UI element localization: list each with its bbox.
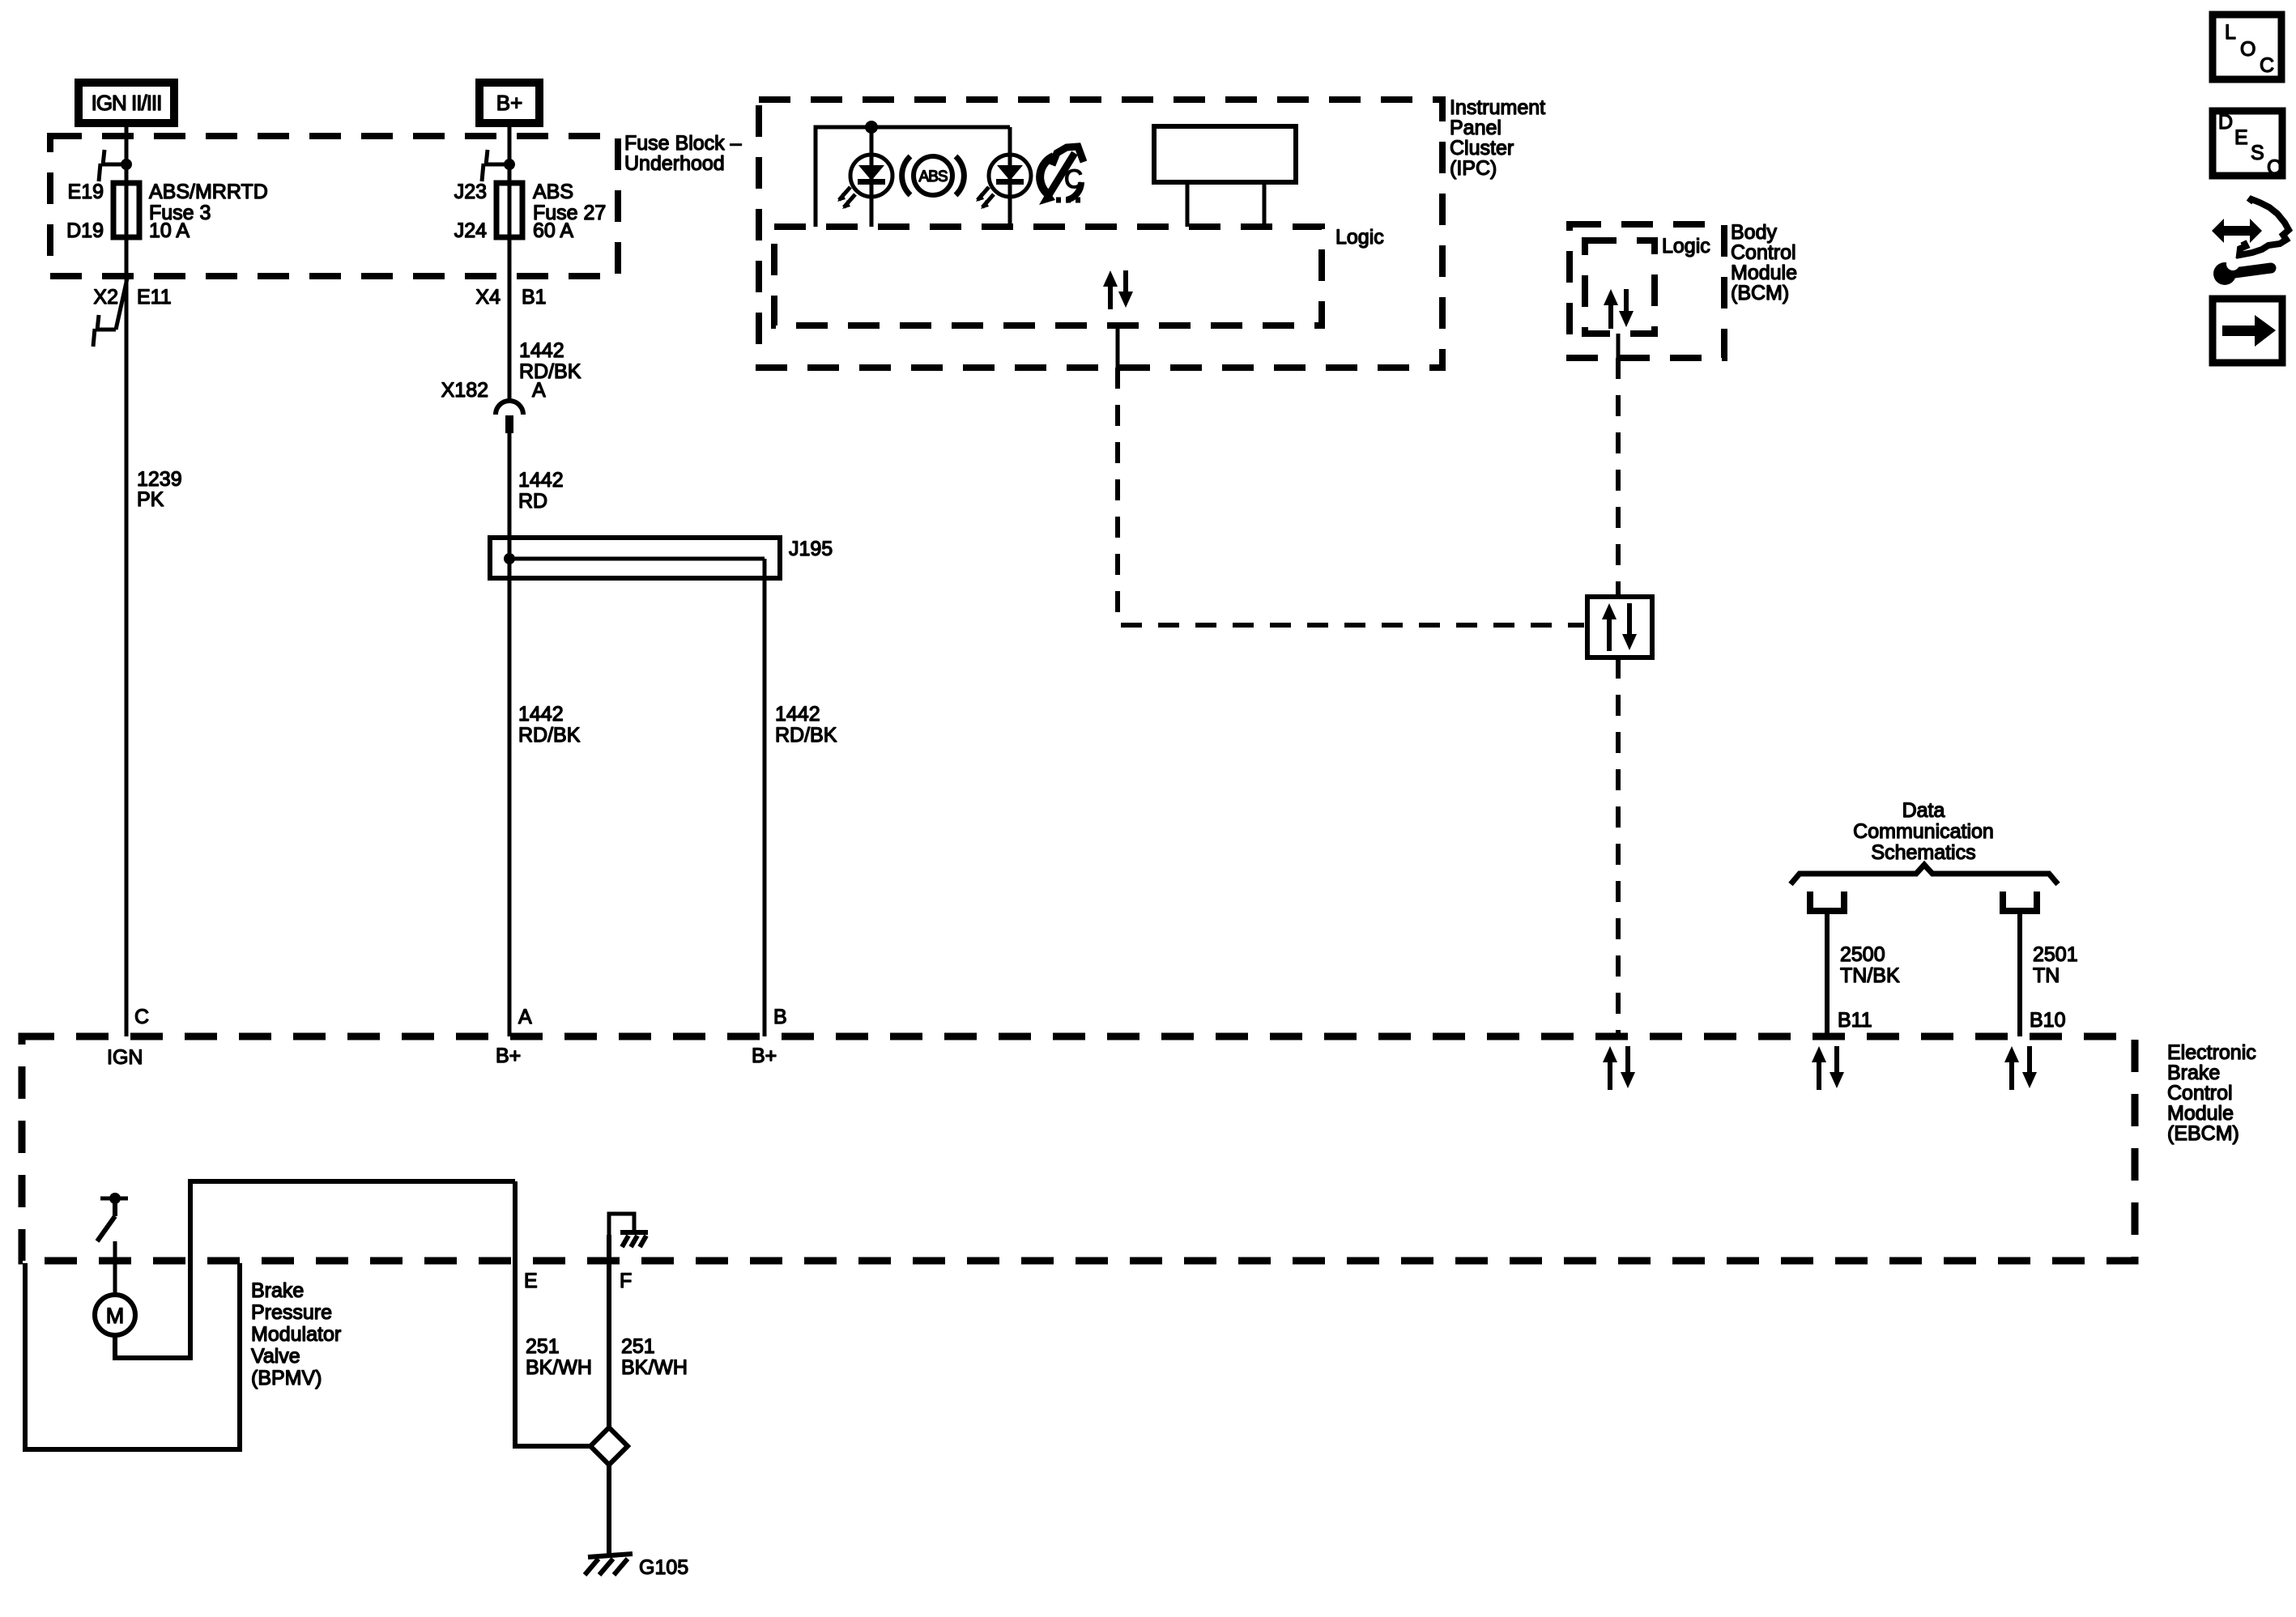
label Electronic Brake Control Module (EBCM) bbox=[2167, 1041, 2256, 1145]
IPC display module box bbox=[1154, 126, 1296, 182]
svg-text:10 A: 10 A bbox=[149, 219, 190, 242]
svg-text:D19: D19 bbox=[66, 219, 104, 242]
LED indicator ABS lamp bbox=[837, 155, 892, 209]
wire pin E to splice bbox=[515, 1181, 590, 1446]
svg-text:PK: PK bbox=[137, 488, 164, 511]
svg-text:J23: J23 bbox=[454, 181, 487, 203]
svg-text:B+: B+ bbox=[496, 1045, 521, 1067]
serial data arrows IPC logic bbox=[1103, 270, 1133, 309]
svg-text:Electronic: Electronic bbox=[2167, 1041, 2256, 1064]
wire J195 right leg to EBCM pin B bbox=[763, 559, 767, 1036]
label Brake Pressure Modulator Valve (BPMV) bbox=[251, 1279, 341, 1389]
svg-text:X182: X182 bbox=[441, 379, 488, 402]
svg-text:ABS/MRRTD: ABS/MRRTD bbox=[149, 181, 268, 203]
svg-text:Cluster: Cluster bbox=[1450, 137, 1514, 160]
svg-text:J195: J195 bbox=[789, 538, 833, 560]
ground G105 bbox=[585, 1554, 633, 1575]
svg-text:B+: B+ bbox=[752, 1045, 777, 1067]
label 251 BK/WH (E) bbox=[526, 1335, 592, 1379]
svg-text:A: A bbox=[518, 1006, 532, 1028]
power feed box B+ bbox=[479, 83, 539, 123]
svg-text:1442: 1442 bbox=[519, 339, 564, 362]
serial data wire junction to EBCM (dashed) bbox=[1616, 657, 1621, 1036]
svg-text:Schematics: Schematics bbox=[1871, 841, 1975, 864]
node dot J23 feed bbox=[504, 159, 515, 170]
LED indicator TC lamp bbox=[976, 155, 1031, 209]
label 2500 TN/BK bbox=[1840, 943, 1900, 987]
svg-text:2500: 2500 bbox=[1840, 943, 1885, 966]
svg-text:(EBCM): (EBCM) bbox=[2167, 1122, 2239, 1145]
svg-text:L: L bbox=[2225, 21, 2236, 44]
svg-text:Body: Body bbox=[1731, 221, 1777, 244]
svg-text:B: B bbox=[773, 1006, 787, 1028]
ABS warning symbol bbox=[902, 156, 965, 195]
svg-text:TN: TN bbox=[2033, 964, 2060, 987]
power feed box IGN II/III bbox=[79, 83, 174, 123]
label Data Communication Schematics bbox=[1853, 799, 1994, 864]
wire LED1 drop bbox=[870, 127, 874, 227]
svg-text:1442: 1442 bbox=[518, 703, 564, 726]
connector X182 male pin bbox=[505, 415, 513, 433]
svg-text:(IPC): (IPC) bbox=[1450, 157, 1497, 180]
wire fuse27 down to X182 bbox=[508, 237, 512, 400]
svg-text:M: M bbox=[106, 1304, 125, 1328]
label ABS Fuse 27 60 A bbox=[533, 181, 606, 242]
EBCM internal ground hook at F bbox=[609, 1214, 648, 1247]
svg-text:IGN: IGN bbox=[107, 1046, 143, 1069]
connector hook at J23 feed bbox=[482, 150, 509, 181]
label 1442 RD/BK right mid bbox=[775, 703, 837, 747]
wire switch to motor bbox=[113, 1241, 117, 1295]
fuse ABS Fuse 27 60A bbox=[496, 183, 522, 237]
svg-text:(BCM): (BCM) bbox=[1731, 282, 1789, 304]
svg-text:Panel: Panel bbox=[1450, 117, 1502, 139]
IPC outer dashed box bbox=[759, 100, 1442, 368]
svg-text:1442: 1442 bbox=[775, 703, 820, 726]
svg-text:Module: Module bbox=[2167, 1102, 2234, 1125]
label Body Control Module (BCM) bbox=[1731, 221, 1797, 304]
svg-text:RD: RD bbox=[518, 490, 547, 513]
svg-text:Modulator: Modulator bbox=[251, 1323, 341, 1346]
svg-text:E: E bbox=[2234, 126, 2248, 149]
svg-text:F: F bbox=[620, 1270, 632, 1292]
svg-text:ABS: ABS bbox=[533, 181, 573, 203]
svg-text:2501: 2501 bbox=[2033, 943, 2078, 966]
svg-text:E: E bbox=[524, 1270, 538, 1292]
svg-text:B+: B+ bbox=[496, 91, 523, 115]
node dot LED1 feed bbox=[865, 121, 878, 134]
svg-text:IGN II/III: IGN II/III bbox=[92, 91, 162, 115]
nav icon forward arrow bbox=[2213, 299, 2282, 363]
svg-text:O: O bbox=[2240, 38, 2256, 61]
svg-text:D: D bbox=[2218, 111, 2233, 134]
svg-text:C: C bbox=[134, 1006, 149, 1028]
pump switch contact bbox=[97, 1193, 128, 1241]
BCM outer dashed box bbox=[1570, 224, 1724, 358]
wire J195 left leg to EBCM pin A bbox=[508, 559, 512, 1036]
svg-text:1442: 1442 bbox=[518, 469, 564, 491]
svg-text:Instrument: Instrument bbox=[1450, 96, 1545, 119]
svg-text:Control: Control bbox=[1731, 241, 1796, 264]
wire IPC logic stub bbox=[1116, 326, 1120, 368]
wire BCM logic stub bbox=[1617, 334, 1621, 358]
svg-text:Brake: Brake bbox=[251, 1279, 304, 1302]
svg-text:Fuse Block –: Fuse Block – bbox=[624, 132, 742, 155]
serial data wire IPC (dashed) bbox=[1118, 368, 1584, 625]
fuse ABS/MRRTD Fuse 3 10A bbox=[113, 183, 139, 237]
svg-text:Logic: Logic bbox=[1335, 226, 1384, 249]
svg-text:G105: G105 bbox=[639, 1556, 688, 1579]
BCM logic dashed box bbox=[1585, 240, 1655, 334]
EBCM dashed box bbox=[22, 1036, 2135, 1261]
wire LED2 drop bbox=[1008, 127, 1012, 227]
svg-text:J24: J24 bbox=[454, 219, 487, 242]
wire fuse3 down to EBCM pin C bbox=[125, 237, 129, 1036]
display module leg 2 bbox=[1263, 182, 1267, 227]
svg-text:TN/BK: TN/BK bbox=[1840, 964, 1900, 987]
svg-text:Communication: Communication bbox=[1853, 820, 1994, 843]
off-page connector B11 wire bbox=[1807, 891, 1847, 1036]
label 251 BK/WH (F) bbox=[621, 1335, 688, 1379]
svg-text:Data: Data bbox=[1902, 799, 1945, 822]
inline connector slant at X2/E11 bbox=[93, 279, 127, 347]
pump motor M bbox=[95, 1295, 135, 1335]
brace data communication bbox=[1791, 865, 2058, 884]
serial data arrows EBCM serial bbox=[1603, 1046, 1635, 1090]
wire B+ to fuse 27 bbox=[508, 127, 512, 186]
fuse block underhood dashed box bbox=[50, 136, 618, 276]
serial data arrows EBCM B10 bbox=[2004, 1046, 2037, 1090]
svg-text:S: S bbox=[2251, 142, 2264, 164]
wire splice to ground bbox=[607, 1465, 611, 1556]
wire IPC feed bus top bbox=[816, 127, 1010, 227]
svg-text:BK/WH: BK/WH bbox=[526, 1356, 592, 1379]
wire IGN II/III to fuse E19 bbox=[125, 127, 129, 186]
svg-text:ABS: ABS bbox=[918, 168, 947, 185]
svg-text:B11: B11 bbox=[1838, 1009, 1872, 1032]
svg-text:251: 251 bbox=[621, 1335, 655, 1358]
label 1442 RD/BK upper bbox=[519, 339, 581, 383]
BPMV solid outline bbox=[25, 1263, 240, 1449]
svg-text:X4: X4 bbox=[475, 286, 501, 309]
svg-text:Brake: Brake bbox=[2167, 1062, 2220, 1084]
nav icon LOC bbox=[2213, 15, 2281, 79]
svg-text:RD/BK: RD/BK bbox=[518, 724, 581, 747]
serial data junction box bbox=[1587, 597, 1652, 657]
label ABS/MRRTD Fuse 3 10 A bbox=[149, 181, 268, 242]
label 1442 RD bbox=[518, 469, 564, 513]
splice pack J195 bbox=[490, 538, 780, 578]
svg-text:60 A: 60 A bbox=[533, 219, 573, 242]
nav icon car with arrow and wrench bbox=[2212, 199, 2289, 285]
svg-text:Pressure: Pressure bbox=[251, 1301, 332, 1324]
svg-text:251: 251 bbox=[526, 1335, 560, 1358]
serial data arrows BCM logic bbox=[1604, 289, 1634, 329]
svg-text:Logic: Logic bbox=[1662, 235, 1710, 257]
svg-text:Control: Control bbox=[2167, 1082, 2233, 1104]
splice diamond bbox=[590, 1428, 628, 1465]
svg-text:RD/BK: RD/BK bbox=[519, 360, 581, 383]
svg-text:A: A bbox=[532, 379, 546, 402]
svg-text:E19: E19 bbox=[68, 181, 104, 203]
TC warning symbol bbox=[1039, 147, 1084, 205]
off-page connector B10 wire bbox=[2000, 891, 2040, 1036]
serial data arrows junction box bbox=[1602, 603, 1637, 651]
label 2501 TN bbox=[2033, 943, 2078, 987]
svg-text:C: C bbox=[2260, 54, 2274, 77]
nav icon DESC bbox=[2213, 111, 2282, 179]
wire motor return loop bbox=[115, 1181, 515, 1358]
label Instrument Panel Cluster (IPC) bbox=[1450, 96, 1545, 180]
svg-text:C: C bbox=[2267, 156, 2281, 179]
svg-text:(BPMV): (BPMV) bbox=[251, 1367, 322, 1389]
connector X182 female half bbox=[496, 401, 523, 415]
serial data arrows EBCM B11 bbox=[1812, 1046, 1844, 1090]
node dot E19 feed bbox=[121, 159, 132, 170]
IPC logic dashed box bbox=[774, 227, 1322, 326]
svg-text:RD/BK: RD/BK bbox=[775, 724, 837, 747]
wire X182 to J195 bbox=[508, 433, 512, 559]
label Fuse Block - Underhood bbox=[624, 132, 742, 175]
display module leg 1 bbox=[1186, 182, 1190, 227]
label 1239 PK bbox=[137, 468, 182, 511]
connector hook at E19 feed bbox=[99, 150, 126, 181]
svg-text:1239: 1239 bbox=[137, 468, 182, 491]
svg-text:Module: Module bbox=[1731, 262, 1797, 284]
svg-text:E11: E11 bbox=[137, 286, 172, 309]
svg-text:X2: X2 bbox=[93, 286, 118, 309]
svg-text:B10: B10 bbox=[2030, 1009, 2065, 1032]
serial data wire BCM to junction (dashed) bbox=[1616, 358, 1621, 597]
svg-text:BK/WH: BK/WH bbox=[621, 1356, 688, 1379]
svg-text:Underhood: Underhood bbox=[624, 152, 725, 175]
svg-text:B1: B1 bbox=[522, 286, 547, 309]
svg-text:Valve: Valve bbox=[251, 1345, 300, 1368]
label 1442 RD/BK left mid bbox=[518, 703, 581, 747]
wire pin F to splice bbox=[607, 1235, 611, 1428]
